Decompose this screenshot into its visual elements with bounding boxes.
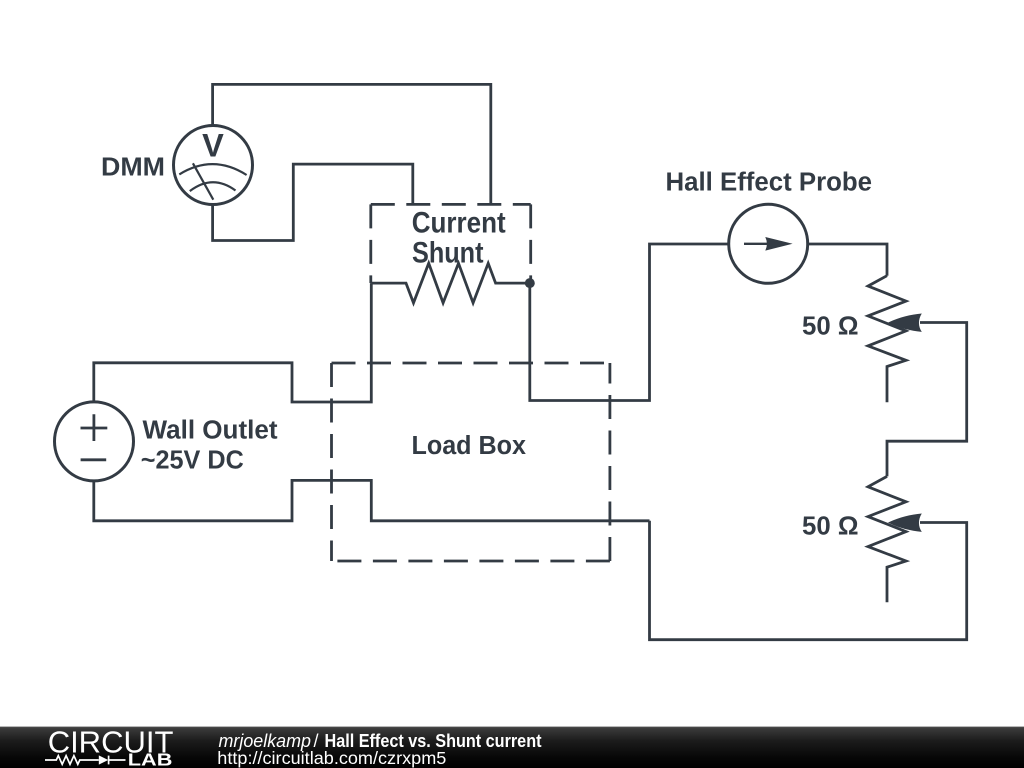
svg-text:50 Ω: 50 Ω — [802, 311, 859, 341]
svg-text:Hall Effect Probe: Hall Effect Probe — [666, 167, 873, 197]
potentiometer R1 50 ohm — [868, 276, 922, 403]
svg-text:~25V DC: ~25V DC — [141, 444, 244, 474]
voltmeter DMM — [174, 126, 253, 205]
footer bar — [0, 727, 1024, 768]
potentiometer R2 50 ohm — [868, 476, 922, 602]
svg-text:Current: Current — [412, 207, 506, 240]
svg-text:Wall Outlet: Wall Outlet — [143, 414, 278, 444]
svg-text:http://circuitlab.com/czrxpm5: http://circuitlab.com/czrxpm5 — [217, 748, 446, 768]
svg-text:Shunt: Shunt — [412, 237, 484, 270]
wire bottom return to wall outlet — [94, 480, 650, 520]
svg-text:DMM: DMM — [101, 152, 165, 182]
wire wiper R2 to bottom rail — [650, 521, 967, 640]
dashed box Current Shunt — [371, 204, 531, 283]
svg-text:50 Ω: 50 Ω — [802, 511, 859, 541]
current source Hall Effect Probe — [729, 204, 808, 283]
svg-text:LAB: LAB — [128, 750, 173, 768]
wire node to hall probe — [530, 244, 729, 401]
node junction — [525, 278, 535, 288]
svg-text:Load Box: Load Box — [412, 430, 527, 460]
svg-text:V: V — [202, 128, 224, 164]
logo icon resistor-diode — [45, 756, 126, 765]
wire DMM bottom loop — [213, 164, 413, 240]
wire wiper R1 to pot R2 — [887, 323, 967, 477]
wire hall probe to pot R1 — [809, 244, 887, 276]
resistor Current Shunt — [371, 263, 530, 303]
wire wall outlet top to shunt — [94, 283, 372, 402]
wire DMM top loop — [213, 84, 491, 204]
dashed box Load Box — [332, 363, 610, 561]
voltage source Wall Outlet — [55, 402, 134, 481]
